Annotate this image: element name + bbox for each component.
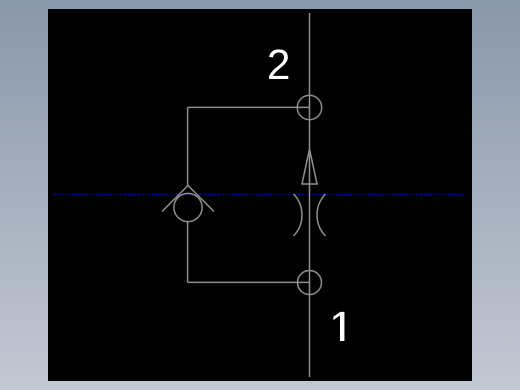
check valve V1 seat: [162, 186, 214, 212]
flow direction arrow: [302, 149, 317, 184]
centerline (blue dashed): [53, 194, 466, 196]
wire: left vertical upper segment: [187, 107, 189, 185]
port circle node 2: [297, 95, 321, 119]
port circle node 1: [298, 271, 322, 295]
port label 1: [333, 312, 344, 341]
check valve V1 ball: [174, 193, 202, 221]
wire: bottom horizontal branch: [188, 281, 310, 283]
port label 2: [269, 49, 288, 79]
throttle valve arcs: [294, 194, 302, 236]
wire: top horizontal branch: [188, 106, 310, 108]
CAD black drawing canvas: [48, 9, 472, 381]
wire: main vertical port line: [309, 13, 311, 377]
wire: left vertical lower segment: [187, 222, 189, 283]
